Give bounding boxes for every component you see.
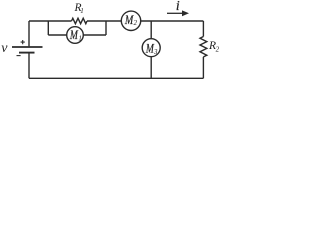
svg-text:v: v — [1, 41, 8, 56]
svg-text:M: M — [69, 28, 78, 42]
svg-text:3: 3 — [153, 48, 158, 56]
svg-text:M: M — [145, 42, 154, 56]
svg-text:2: 2 — [134, 19, 138, 27]
svg-text:1: 1 — [78, 35, 82, 43]
svg-text:i: i — [176, 0, 180, 13]
svg-text:2: 2 — [216, 46, 220, 54]
svg-text:1: 1 — [80, 7, 84, 15]
